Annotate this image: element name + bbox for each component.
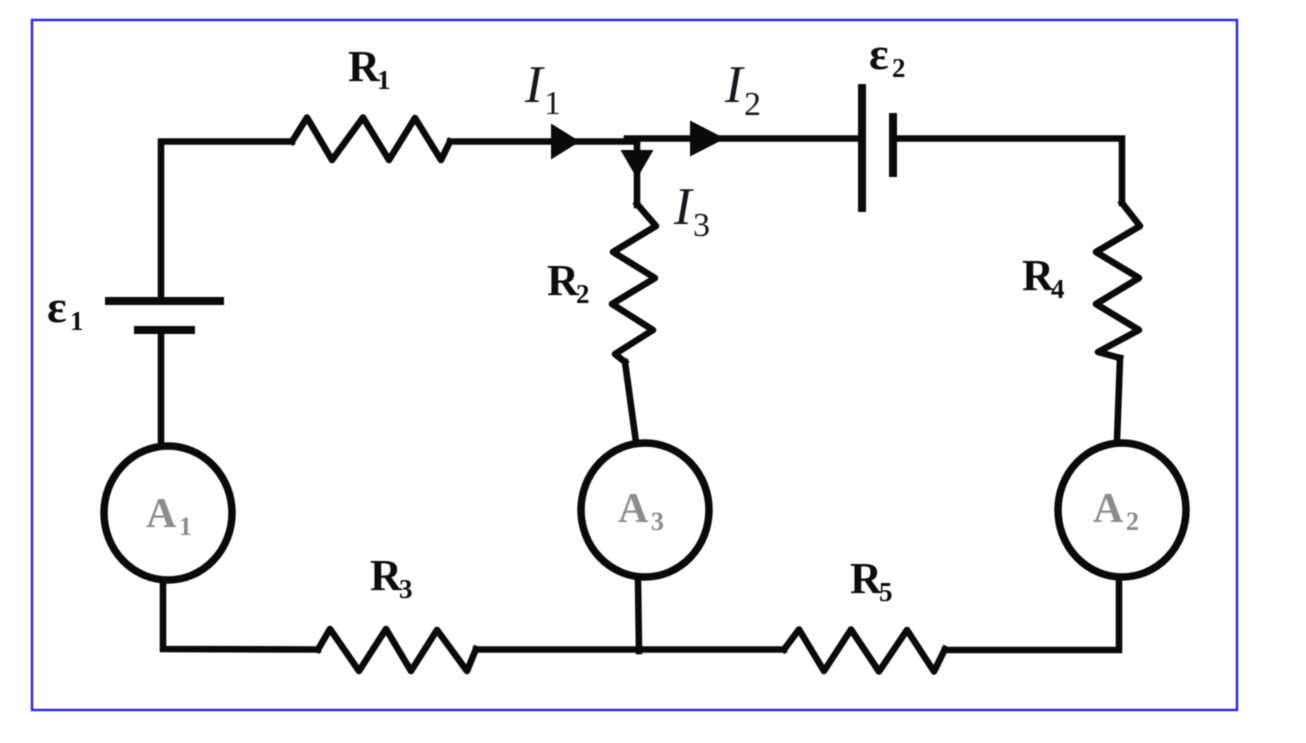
svg-text:A: A bbox=[1093, 486, 1124, 532]
svg-text:A: A bbox=[146, 491, 177, 537]
svg-text:4: 4 bbox=[1051, 274, 1065, 304]
svg-text:A: A bbox=[618, 486, 649, 532]
svg-text:3: 3 bbox=[693, 207, 710, 244]
svg-text:1: 1 bbox=[179, 512, 192, 541]
svg-text:1: 1 bbox=[70, 306, 84, 336]
svg-text:ε: ε bbox=[869, 28, 889, 79]
svg-text:3: 3 bbox=[399, 574, 413, 604]
svg-text:1: 1 bbox=[544, 85, 561, 122]
svg-text:5: 5 bbox=[879, 577, 893, 607]
svg-text:3: 3 bbox=[651, 507, 664, 536]
svg-text:1: 1 bbox=[377, 65, 391, 95]
svg-text:2: 2 bbox=[892, 53, 906, 83]
svg-text:I: I bbox=[724, 56, 745, 114]
svg-text:2: 2 bbox=[576, 279, 590, 309]
svg-text:I: I bbox=[673, 178, 694, 236]
svg-text:2: 2 bbox=[1126, 507, 1139, 536]
svg-text:2: 2 bbox=[744, 86, 761, 123]
svg-text:ε: ε bbox=[47, 281, 67, 332]
svg-text:I: I bbox=[524, 56, 545, 114]
